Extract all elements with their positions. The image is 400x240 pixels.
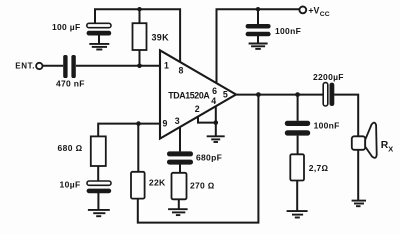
svg-text:2: 2 bbox=[195, 104, 200, 114]
capacitor C 470nF (input, non-polarized) bbox=[63, 55, 76, 78]
wire: 2200uF to speaker corner bbox=[334, 95, 358, 137]
capacitor C 100nF (supply decoupling) bbox=[246, 24, 271, 36]
wire: pin 9 line to 680R corner bbox=[98, 124, 159, 137]
wire: zobel 100nF top lead bbox=[297, 95, 299, 121]
capacitor C 100uF (electrolytic, top plate hollow) bbox=[87, 23, 112, 35]
ground: pins 2/4 bbox=[207, 136, 225, 142]
svg-text:9: 9 bbox=[162, 118, 167, 128]
node: pin 9 / 22K junction bbox=[136, 121, 141, 126]
wire: 100uF bottom lead bbox=[98, 35, 100, 43]
wire: 22K top lead from pin 9 node bbox=[137, 124, 139, 172]
ground below speaker bbox=[352, 201, 366, 207]
svg-text:2200µF: 2200µF bbox=[313, 72, 344, 82]
svg-text:10µF: 10µF bbox=[60, 180, 81, 190]
svg-text:X: X bbox=[388, 144, 393, 153]
ground below 100uF bbox=[89, 44, 109, 50]
wire: 39K bottom lead bbox=[139, 50, 141, 66]
capacitor C 680pF bbox=[167, 151, 193, 164]
svg-text:39K: 39K bbox=[152, 32, 170, 42]
wire: 680pF to 270R lead bbox=[179, 164, 181, 172]
wire: output from pin 5 to 2200uF bbox=[236, 94, 323, 96]
svg-text:5: 5 bbox=[223, 89, 228, 99]
wire: pin 2 lead to ground node bbox=[198, 117, 216, 123]
svg-text:22K: 22K bbox=[149, 177, 166, 187]
wire: speaker bottom lead bbox=[357, 150, 359, 200]
svg-text:ENT.: ENT. bbox=[15, 62, 35, 71]
wire: 680R to 10uF lead bbox=[97, 166, 99, 181]
svg-text:100 µF: 100 µF bbox=[52, 22, 80, 32]
ground below 270 ohm bbox=[168, 209, 188, 215]
node: zobel junction on output bbox=[295, 92, 300, 97]
svg-text:100nF: 100nF bbox=[275, 26, 301, 36]
capacitor C 100nF (zobel) bbox=[285, 121, 310, 136]
ground below 10uF bbox=[88, 210, 110, 216]
svg-text:CC: CC bbox=[320, 11, 330, 18]
wire: 2.7R bottom lead bbox=[296, 180, 298, 210]
svg-text:6: 6 bbox=[212, 86, 217, 96]
ground below 2.7 ohm bbox=[287, 211, 308, 217]
svg-text:+V: +V bbox=[308, 6, 319, 16]
ground below supply 100nF bbox=[249, 44, 268, 49]
node: 39K top junction bbox=[137, 7, 141, 11]
wire: 39K top lead bbox=[139, 9, 141, 23]
resistor R 270 ohm bbox=[172, 173, 187, 200]
svg-text:8: 8 bbox=[179, 65, 184, 75]
wire: 100nF decoupling top lead bbox=[257, 9, 259, 24]
capacitor C 10uF (electrolytic, top plate hollow) bbox=[87, 181, 112, 193]
svg-text:4: 4 bbox=[211, 96, 216, 106]
terminal: ENT input circle bbox=[36, 63, 42, 69]
resistor R 2.7 ohm bbox=[290, 154, 304, 180]
svg-text:TDA1520A: TDA1520A bbox=[168, 90, 210, 100]
svg-text:680 Ω: 680 Ω bbox=[58, 143, 83, 153]
wire: feedback from output node down and to 22K bottom bbox=[138, 95, 259, 223]
wire: top rail left with pin 8 drop bbox=[95, 9, 180, 62]
wire: pin 4 lead down through node to ground bbox=[215, 106, 217, 136]
resistor R 39K bbox=[133, 23, 147, 50]
wire: 100nF decoupling bottom lead bbox=[257, 36, 259, 44]
resistor R 680 ohm bbox=[91, 136, 106, 166]
svg-text:100nF: 100nF bbox=[314, 120, 340, 130]
op-amp U1 TDA1520A triangle bbox=[160, 50, 236, 138]
wire: 270R bottom lead bbox=[178, 199, 180, 209]
node: pin 2/4 ground junction bbox=[214, 120, 219, 125]
svg-text:470 nF: 470 nF bbox=[56, 78, 85, 88]
speaker Rx bbox=[352, 123, 377, 158]
node: 100nF decoupling junction bbox=[256, 7, 260, 11]
node: feedback junction on output bbox=[256, 92, 261, 97]
wire: Vcc rail right with pin 6 drop bbox=[217, 9, 300, 83]
svg-text:2,7Ω: 2,7Ω bbox=[309, 163, 329, 173]
resistor R 22K bbox=[131, 172, 145, 199]
capacitor C 2200uF (output electrolytic, left plate hollow) bbox=[323, 83, 334, 106]
wire: 100uF top lead bbox=[94, 9, 96, 23]
wire: zobel 100nF to 2.7R lead bbox=[297, 136, 299, 155]
wire: pin 3 lead to 680pF bbox=[179, 127, 181, 151]
svg-text:270 Ω: 270 Ω bbox=[190, 181, 215, 191]
svg-text:680pF: 680pF bbox=[196, 152, 222, 162]
svg-text:3: 3 bbox=[175, 116, 180, 126]
wire: 10uF bottom lead bbox=[97, 193, 99, 210]
svg-text:1: 1 bbox=[164, 61, 169, 71]
terminal: +Vcc circle bbox=[299, 6, 306, 13]
wire: input line from ENT to pin 1 bbox=[43, 65, 64, 67]
node: 39K bottom on input line bbox=[137, 64, 142, 69]
